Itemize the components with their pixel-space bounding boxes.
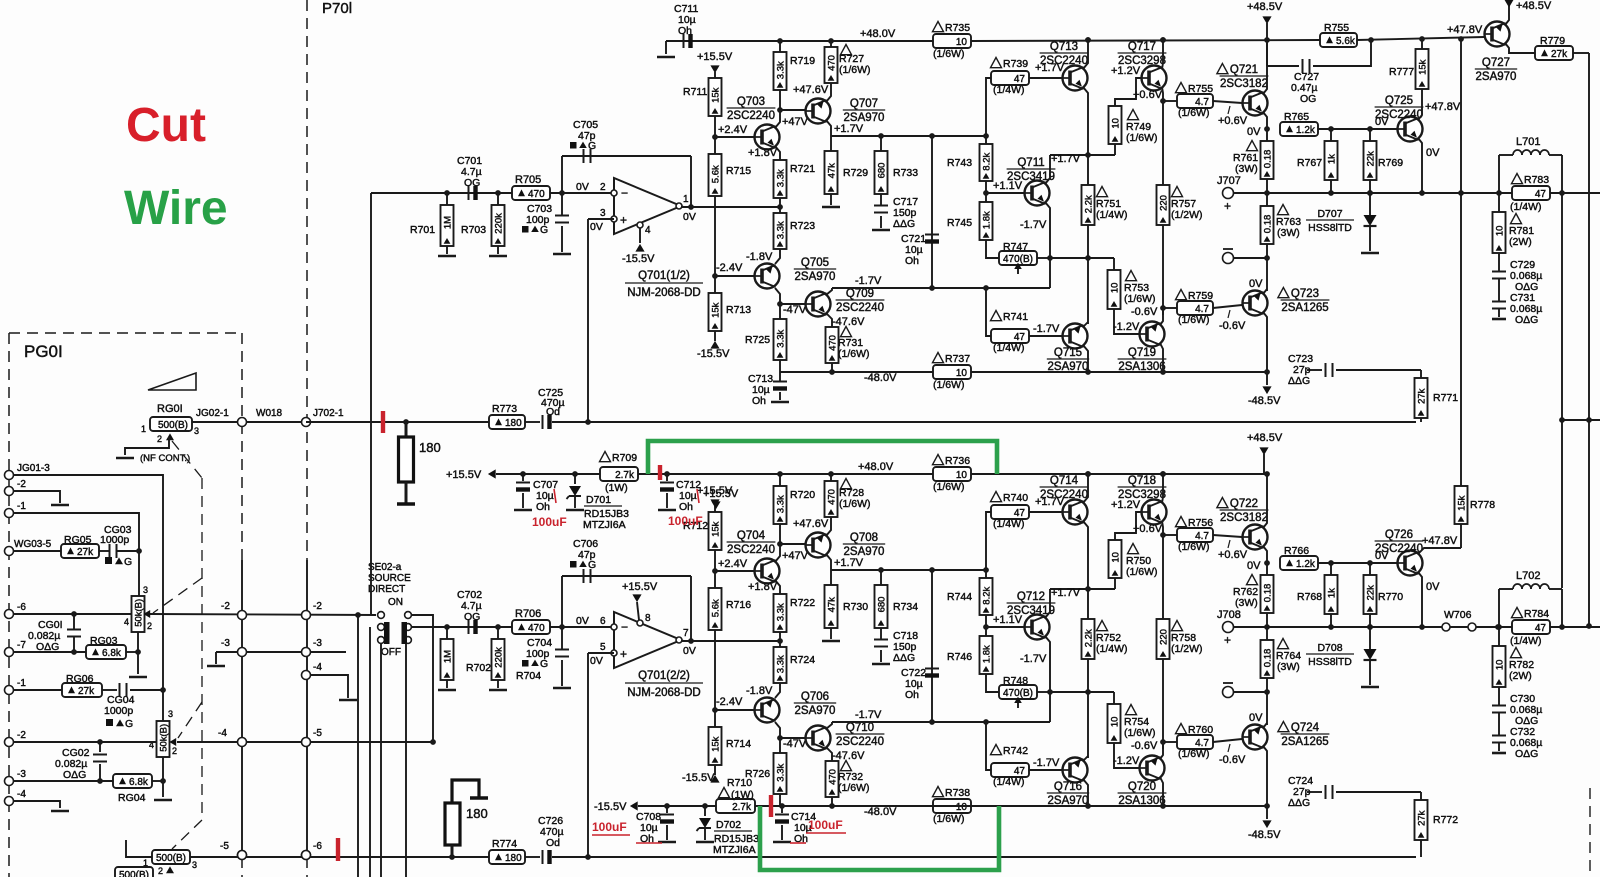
ground RG01 [116, 457, 134, 460]
label 0V Q725e top [1426, 147, 1440, 159]
label C702 val [461, 600, 482, 612]
svg-text:6.8k: 6.8k [102, 648, 122, 659]
junction J707 wire bottom [1264, 624, 1270, 630]
wire plus-input riser top [587, 219, 589, 422]
red tick C707 [554, 489, 556, 503]
svg-text:-48.0V: -48.0V [864, 806, 897, 818]
label pin5 [600, 642, 606, 653]
svg-text:R770: R770 [1378, 591, 1403, 603]
label Q727 [1475, 57, 1517, 83]
ground R730 [822, 640, 840, 643]
wire bold lead 180 bottom2 [451, 845, 454, 857]
resistor RG05 27k [61, 544, 99, 558]
wire Q719 collector top [1160, 343, 1163, 372]
label -48.0V top [864, 372, 897, 384]
svg-text:R725: R725 [745, 334, 770, 346]
label C722 name [901, 667, 926, 679]
wire -1.7V top [832, 287, 1050, 289]
ground C713 [771, 401, 789, 404]
svg-text:+1.7V: +1.7V [834, 557, 864, 569]
svg-text:R766: R766 [1284, 545, 1309, 557]
svg-text:1M: 1M [443, 650, 454, 663]
svg-text:R703: R703 [461, 224, 486, 236]
svg-text:Q724: Q724 [1291, 722, 1320, 734]
label Q714 [1040, 475, 1089, 501]
label C725 od [546, 406, 560, 418]
label C725 name [538, 387, 563, 399]
label C707 oh [536, 501, 550, 513]
svg-text:47: 47 [1535, 623, 1547, 634]
label C701 val [461, 166, 482, 178]
svg-text:0V: 0V [576, 615, 589, 627]
switch wiper bar right [402, 622, 408, 644]
label Q708 [843, 532, 885, 558]
svg-text:R729: R729 [843, 167, 868, 179]
svg-text:R724: R724 [790, 654, 815, 666]
wire R771 top lead R771 [1420, 370, 1422, 378]
svg-text:Q705: Q705 [801, 257, 829, 269]
label R768 [1297, 591, 1322, 603]
switch contact 408x627 [405, 624, 412, 631]
label Q717 [1118, 41, 1167, 67]
label pin1 [683, 194, 689, 205]
ground JG01 -2 [51, 504, 69, 507]
label R750 t [1126, 544, 1158, 579]
junction C708 [664, 803, 670, 809]
wire bold lead 180 bottom [405, 482, 408, 503]
wire R719 bottom lead bottom [779, 524, 781, 544]
capacitor C705 47p [584, 149, 591, 163]
wire J707 to node bottom [1234, 626, 1267, 628]
svg-text:0.18: 0.18 [1263, 150, 1274, 169]
svg-text:R711: R711 [683, 86, 707, 98]
junction R743 top [983, 133, 989, 139]
wire output line L702 [1267, 626, 1600, 628]
power -15.5V op-amp [635, 244, 644, 252]
svg-text:R760: R760 [1188, 724, 1213, 736]
resistor R710 2.7k [716, 799, 755, 813]
wire R753 to Q719 bottom [1114, 743, 1140, 768]
junction C721 top [929, 133, 935, 139]
svg-text:RG03: RG03 [90, 635, 118, 647]
svg-text:470: 470 [828, 335, 839, 351]
svg-text:-1: -1 [17, 501, 26, 512]
svg-text:R778: R778 [1470, 499, 1495, 511]
junction CG01 top [71, 611, 77, 617]
svg-text:R744: R744 [947, 591, 972, 603]
svg-text:-15.5V: -15.5V [682, 772, 715, 784]
wire Q707 emitter up bottom [826, 517, 831, 536]
label Q706 [794, 691, 836, 717]
junction minus node bottom [1264, 689, 1270, 695]
svg-text:2: 2 [172, 746, 177, 756]
wire Q719 collector bottom [1160, 777, 1163, 806]
label R732 warn [841, 761, 852, 771]
junction rail Q717 [1160, 37, 1166, 43]
label R728 [839, 487, 864, 499]
op-amp U701b [614, 612, 681, 668]
wire CG03 to pot1 [117, 550, 139, 552]
label P701 [322, 0, 352, 17]
wire R719 top lead top [779, 41, 781, 52]
label R782 t [1509, 648, 1534, 683]
wire rail C711 to R735 [666, 40, 933, 42]
wiper arrow RG01 [166, 433, 174, 440]
red label 100uF C712 [668, 514, 703, 528]
junction C703 top [559, 190, 565, 196]
label 0V pin+ bottom [590, 655, 603, 667]
wire Q725 emitter bottom [1418, 572, 1422, 627]
label col306 -6 [313, 841, 322, 852]
svg-text:3: 3 [192, 860, 197, 870]
ground C707 [514, 509, 532, 512]
switch contact 381x640 [378, 637, 385, 644]
wire R739 riser bottom [986, 512, 991, 570]
wire C717 gnd lead top [880, 216, 882, 228]
label C703 name [527, 203, 552, 215]
wire base Q703 bottom [715, 570, 754, 572]
label C705 name [573, 119, 598, 131]
svg-text:ΔΔG: ΔΔG [1288, 375, 1310, 387]
wire R727 top lead bottom [830, 474, 832, 481]
svg-text:0V: 0V [1249, 278, 1263, 290]
label R715 [726, 165, 751, 177]
svg-text:L702: L702 [1516, 570, 1540, 582]
svg-text:ΔΔG: ΔΔG [1288, 797, 1310, 809]
legend Wire [124, 182, 228, 235]
connector col242 -5 [238, 851, 247, 860]
label R726 [745, 768, 770, 780]
resistor R713 15k [709, 293, 722, 331]
svg-text:2SC2240: 2SC2240 [1040, 55, 1088, 67]
svg-text:1000p: 1000p [104, 705, 133, 717]
label -47.6V bottom [832, 750, 865, 762]
wire J707 to node top [1234, 192, 1267, 194]
label plus top [1224, 199, 1231, 213]
wire C703 gnd lead top [561, 226, 563, 252]
svg-text:7: 7 [683, 628, 689, 639]
pin 4 pot1 [124, 617, 129, 627]
wire +1.7V mid bottom [1050, 588, 1115, 590]
svg-text:10: 10 [956, 37, 968, 48]
wire R743 top lead bottom [985, 570, 987, 578]
junction Q703 collector top [777, 107, 783, 113]
svg-text:2SA1265: 2SA1265 [1281, 736, 1328, 748]
junction feedback out bottom [688, 638, 694, 644]
wire Q715 collector top [1083, 345, 1088, 372]
pin + input bottom [611, 650, 617, 656]
wire Q715 collector bottom [1083, 779, 1088, 806]
label R735 w [933, 48, 965, 60]
wire signal top long [552, 421, 1416, 423]
svg-text:2SC3182: 2SC3182 [1220, 512, 1268, 524]
PG01 box top dashed edge [9, 332, 240, 334]
label +15.5V wire [446, 469, 482, 481]
svg-text:R706: R706 [515, 608, 541, 620]
wire WG03-5 [13, 550, 61, 552]
wire pot1 top lead [138, 551, 140, 596]
label -1.7V Q711 top [1020, 219, 1047, 231]
svg-text:10: 10 [1110, 283, 1121, 294]
ground D701 [566, 509, 584, 512]
label PG01 [24, 342, 63, 361]
svg-text:1.2k: 1.2k [1296, 559, 1316, 570]
resistor R745 1.8k [980, 202, 993, 240]
label R755 w [1178, 107, 1210, 119]
svg-text:(1W): (1W) [731, 789, 754, 801]
svg-text:+1.7V: +1.7V [1051, 587, 1081, 599]
label 0V Q721 bottom [1247, 560, 1261, 572]
resistor R767 1k [1325, 141, 1338, 180]
ground col -3 [207, 665, 225, 668]
resistor R746 1.8k [980, 636, 993, 674]
svg-text:+15.5V: +15.5V [697, 51, 733, 63]
capacitor C702 [469, 620, 478, 634]
connector PG01 -7 y652 [5, 648, 14, 657]
svg-text:(1/4W): (1/4W) [1510, 201, 1542, 213]
wire R769 bottom top [1369, 180, 1371, 193]
ground C704 [553, 687, 571, 690]
junction J707 wire top [1264, 190, 1270, 196]
label WG03-5 y551 [14, 539, 52, 550]
connector col242 -4 [238, 738, 247, 747]
wire -4 row [13, 801, 60, 808]
ground -4 row [51, 810, 69, 813]
transistor Q719 2SA1306 [1140, 322, 1165, 347]
resistor R758 220 [1157, 619, 1170, 659]
wire R729 bottom bottom [830, 628, 832, 639]
wire CG02 bottom lead [99, 764, 101, 781]
junction C714 [779, 803, 785, 809]
resistor R748 470(B) [999, 685, 1037, 699]
junction bold180 bottom signal [449, 854, 455, 860]
svg-text:R759: R759 [1188, 290, 1213, 302]
svg-text:D702: D702 [716, 819, 741, 831]
svg-text:-48.5V: -48.5V [1248, 395, 1281, 407]
resistor R761 0.18 [1261, 141, 1274, 179]
legend Cut [126, 99, 206, 152]
svg-text:(1/2W): (1/2W) [1171, 643, 1203, 655]
ground pot1 [129, 676, 147, 679]
label R736 w [933, 481, 965, 493]
svg-text:(3W): (3W) [1277, 661, 1300, 673]
wire bold lead 180 top [405, 422, 408, 437]
power -15.5V chain bottom [710, 775, 719, 783]
svg-text:NJM-2068-DD: NJM-2068-DD [627, 687, 701, 699]
transistor Q727 2SA970 [1485, 22, 1510, 47]
svg-text:15k: 15k [711, 87, 722, 103]
wire Q703 emitter bottom [775, 580, 780, 594]
label SE02-a [368, 562, 402, 573]
label C708 oh [640, 833, 654, 845]
label R767 [1297, 157, 1322, 169]
junction rail2 R720 [777, 471, 783, 477]
label R727 warn [841, 45, 852, 55]
label C713 name [748, 373, 773, 385]
label R737 t [933, 353, 971, 366]
wire R711 to R715 top [714, 116, 716, 154]
pin output top [676, 203, 682, 209]
wire op-amp output bottom [681, 640, 782, 642]
wire R778 to Q726 [1460, 524, 1462, 548]
svg-text:Q707: Q707 [850, 98, 878, 110]
wire R755 left top [1163, 100, 1177, 102]
junction Q713 coll rail top [1085, 37, 1091, 43]
svg-text:220k: 220k [494, 213, 505, 234]
svg-text:(1/4W): (1/4W) [993, 776, 1025, 788]
svg-text:1000p: 1000p [100, 534, 129, 546]
connector col306 -3 [302, 648, 311, 657]
svg-text:R723: R723 [790, 220, 815, 232]
wire -1.7V bottom [832, 721, 1050, 723]
svg-text:0V: 0V [683, 211, 696, 223]
label R703 [461, 224, 486, 236]
label C704 marks [522, 658, 548, 670]
junction rail R719 [777, 38, 783, 44]
connector J708 plus [1223, 622, 1234, 633]
label C732 name [1510, 726, 1535, 738]
label Q703 [727, 96, 776, 122]
wire pin8 stub [637, 602, 639, 620]
svg-text:-4: -4 [17, 789, 26, 800]
label R741 t [991, 311, 1029, 324]
svg-text:R756: R756 [1188, 517, 1213, 529]
svg-text:(1/6W): (1/6W) [1124, 293, 1156, 305]
svg-text:-2: -2 [221, 601, 230, 612]
label Q724 [1278, 722, 1330, 749]
label RG03 [90, 635, 118, 647]
label C712 oh [679, 501, 693, 513]
wire Q721 collector top [1263, 40, 1267, 94]
svg-text:+47.6V: +47.6V [793, 84, 829, 96]
label R778 [1470, 499, 1495, 511]
transistor Q712 2SC3419 [1025, 615, 1050, 640]
label RG06 [66, 673, 94, 685]
junction CG02 top [97, 739, 103, 745]
junction R729 top [878, 133, 884, 139]
svg-text:D707: D707 [1317, 208, 1342, 220]
svg-text:2.2k: 2.2k [1084, 195, 1095, 213]
svg-text:3: 3 [600, 208, 606, 219]
label R772 [1433, 814, 1458, 826]
wire RG01 to J702-1 [192, 421, 306, 423]
wire C727 to junction [1313, 40, 1371, 66]
junction R731 rail bottom [829, 803, 835, 809]
label +47.8V Q726 [1422, 535, 1458, 547]
label Q722 [1217, 498, 1269, 525]
wire C712 lead [666, 474, 668, 481]
svg-text:+1.8V: +1.8V [748, 581, 778, 593]
wire R701 gnd top [446, 246, 448, 254]
wire zobel mid R781 [1498, 253, 1500, 271]
resistor R732 470 [826, 761, 839, 797]
svg-text:P70l: P70l [322, 0, 352, 17]
label 0V out top [683, 211, 696, 223]
resistor R763 0.18 [1261, 206, 1274, 244]
capacitor C725 470u [543, 415, 552, 429]
transistor Q710 2SC2240 [806, 726, 831, 751]
label +1.1V bottom [993, 614, 1023, 626]
junction R777 rail [1419, 36, 1425, 42]
label Q705 [794, 257, 836, 283]
potentiometer RG01 500(B) [150, 417, 192, 431]
junction D707 D708 [1367, 624, 1373, 630]
wire Q711 emitter bottom [1045, 636, 1050, 722]
resistor R773 180 [489, 415, 525, 429]
junction Q703 collector bottom [777, 541, 783, 547]
svg-text:R748: R748 [1003, 675, 1028, 687]
wire Q717 base jog bottom [1115, 512, 1141, 540]
svg-text:3: 3 [168, 709, 173, 719]
label +1.7V R739 top [1035, 62, 1065, 74]
label +1.2V bottom [1111, 499, 1141, 511]
transistor Q725 2SC2240 [1398, 117, 1423, 142]
svg-text:+47.8V: +47.8V [1425, 101, 1461, 113]
svg-text:Q726: Q726 [1385, 529, 1413, 541]
junction C707 [520, 471, 526, 477]
svg-text:RG05: RG05 [64, 534, 92, 546]
svg-text:+47.6V: +47.6V [793, 518, 829, 530]
svg-text:+2.4V: +2.4V [718, 558, 748, 570]
svg-text:-4: -4 [313, 662, 322, 673]
resistor R747 470(B) [999, 251, 1037, 265]
pin 3 RG01 [194, 426, 199, 436]
label minus bottom [621, 620, 628, 634]
wire R771 bottom lead R772 [1420, 840, 1422, 857]
resistor 180 (bold) top [399, 437, 414, 482]
label OFF [381, 647, 401, 658]
transistor Q711 2SC3419 [1025, 181, 1050, 206]
svg-text:G: G [540, 224, 548, 236]
svg-text:+47.8V: +47.8V [1422, 535, 1458, 547]
label R706 [515, 608, 541, 620]
power -15.5V wire arrow [630, 801, 638, 810]
junction rail +48.5V [1264, 37, 1270, 43]
svg-text:2SC3182: 2SC3182 [1220, 78, 1268, 90]
label +1.7V top [834, 123, 864, 135]
label DIRECT [368, 584, 405, 595]
wire R741 riser top [986, 288, 991, 336]
transistor Q708 2SA970 [806, 533, 831, 558]
svg-text:+48.0V: +48.0V [858, 461, 894, 473]
wire R715 to R713 bottom [714, 630, 716, 727]
svg-text:R746: R746 [947, 651, 972, 663]
label 0V pin- top [576, 181, 589, 193]
svg-text:0V: 0V [1249, 712, 1263, 724]
svg-text:-0.6V: -0.6V [1131, 306, 1158, 318]
wire bottom signal left end [126, 840, 152, 857]
wire C707 gnd lead [522, 493, 524, 508]
resistor R724 3.3k [774, 647, 787, 683]
label C712 val [679, 490, 697, 502]
wire feedback down bottom [690, 576, 692, 641]
wire pot2 bottom [162, 757, 164, 797]
label R739 w [993, 84, 1025, 96]
label C702 og [464, 611, 480, 623]
svg-text:+: + [620, 647, 627, 661]
wire R774 to C726 [525, 856, 540, 858]
wire R753 top lead bottom [1113, 692, 1115, 704]
label R784 w [1510, 635, 1542, 647]
wire +1.7V bottom [831, 569, 986, 571]
svg-text:(1/4W): (1/4W) [1510, 635, 1542, 647]
wire Q715 emitter bottom [1083, 756, 1088, 761]
label C711 name [674, 3, 698, 15]
resistor R759 4.7 [1177, 301, 1213, 315]
svg-text:3.3k: 3.3k [776, 221, 787, 239]
resistor R762 0.18 [1261, 575, 1274, 613]
svg-text:470: 470 [528, 189, 545, 200]
